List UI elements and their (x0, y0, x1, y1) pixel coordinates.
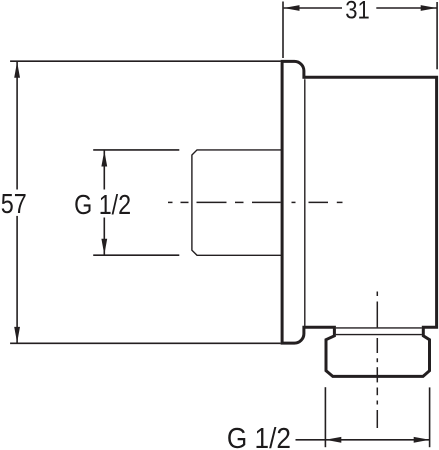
wire: dimension line inlet upper segment (103, 151, 105, 190)
wire: extension line left of dim 31 (282, 2, 284, 59)
wire: extension line top of inlet G 1/2 dim (93, 149, 179, 151)
wire: flange right edge (thin, against body) (304, 79, 306, 326)
svg-text:31: 31 (345, 0, 370, 25)
wire: extension line right of dim 31 (436, 2, 438, 69)
wire: extension line right of bottom G 1/2 dim (429, 387, 431, 447)
wire: extension line bottom of inlet G 1/2 dim (93, 254, 179, 256)
arrow: inlet dim top (101, 151, 107, 167)
body block with outlet neck and hex nut (304, 77, 437, 376)
arrow: inlet dim bottom (101, 239, 107, 255)
wire: joint line 2 nut top edge (thin) (336, 334, 422, 336)
wire: joint line 1 under body (thin) (336, 327, 422, 329)
svg-text:G 1/2: G 1/2 (227, 423, 291, 450)
wire: dimension line 31 left segment (284, 7, 342, 9)
centerline: vertical axis of outlet (dash-dot) (376, 292, 378, 429)
inlet pipe stub G 1/2 (thin outline) (192, 150, 282, 255)
wire: extension line bottom of dim 57 (flange bottom extended) (10, 342, 281, 344)
svg-text:57: 57 (1, 188, 27, 219)
wire: extension line left of bottom G 1/2 dim (324, 387, 326, 447)
svg-text:G 1/2: G 1/2 (74, 189, 131, 220)
arrow: bottom dim right (414, 437, 430, 443)
arrow: dim 57 bottom (14, 327, 20, 343)
arrow: bottom dim left (325, 437, 341, 443)
wire: dimension line 57 lower segment (16, 216, 18, 343)
arrow: dim 57 top (14, 62, 20, 78)
flange (wall escutcheon, side view) (282, 61, 304, 343)
arrow: dim 31 right (421, 5, 437, 11)
arrow: dim 31 left (284, 5, 300, 11)
wire: dimension line bottom G 1/2 (296, 439, 430, 441)
centerline: horizontal axis of inlet (dash-dot) (168, 201, 343, 203)
wire: extension line top of dim 57 (flange top extended) (10, 60, 281, 62)
wire: dimension line inlet lower segment (103, 218, 105, 255)
wire: dimension line 57 upper segment (16, 62, 18, 190)
wire: dimension line 31 right segment (376, 7, 436, 9)
